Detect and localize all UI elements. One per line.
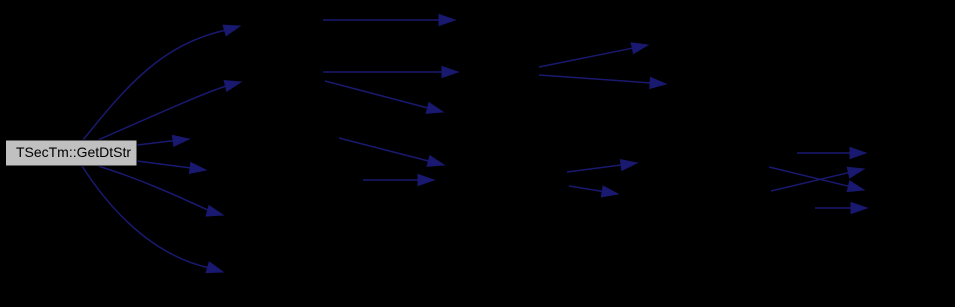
edge node4g->node5a [771, 167, 864, 191]
edge node3e->node4d [569, 186, 618, 197]
edge GetDtStr->node2f [82, 166, 223, 273]
edge node3b->node4b [539, 75, 666, 88]
edge node4e->node5a [797, 148, 866, 159]
edge node4h->node5a [815, 203, 867, 214]
svg-text:TSecTm::GetDtStr: TSecTm::GetDtStr [16, 144, 131, 160]
edge GetDtStr->node2c [137, 135, 189, 146]
edge node4f->node5a [769, 167, 864, 192]
edge GetDtStr->node2e [98, 166, 223, 216]
node TSecTm::GetDtStr [6, 140, 138, 166]
edge node2e->node3e [363, 175, 434, 186]
edge node2b->node3b [323, 67, 458, 78]
edge node2b->node3c [325, 81, 443, 113]
edge GetDtStr->node2d [137, 161, 206, 173]
edge node2a->node3a [323, 15, 455, 26]
edge GetDtStr->node2a [83, 25, 240, 140]
edge node3b->node4a [539, 43, 648, 67]
edge node2d->node3d [339, 138, 444, 166]
edge GetDtStr->node2b [98, 81, 241, 141]
edge node3d->node4c [567, 160, 637, 172]
